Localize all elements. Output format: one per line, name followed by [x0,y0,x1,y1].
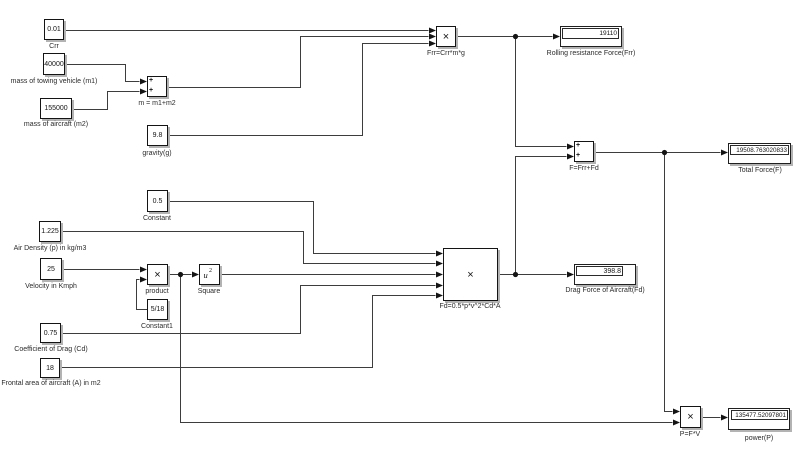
label power(P) [745,435,773,443]
arrowhead into drag display [567,272,574,278]
label Constant1 [141,323,173,331]
arrowhead into Frr input 1 [429,28,436,34]
arrowhead into Frr display [553,34,560,40]
arrowhead into product input 1 [140,267,147,273]
label m = m1+m2 [138,100,175,108]
wire Cd to Fd input 4 [61,286,436,334]
label Square [198,288,221,296]
display value 135477.52097801 [731,410,788,420]
label Coefficient of Drag (Cd) [14,346,87,354]
arrowhead into P input 1 [673,409,680,415]
arrowhead into Fd input 4 [436,283,443,289]
arrowhead into product input 2 [140,277,147,283]
label F=Frr+Fd [569,165,599,173]
label Frr=Crr*m*g [427,50,465,58]
multiply block Frr=Crr*m*g [436,26,456,47]
multiply block product [147,264,168,285]
arrowhead into sum m input 1 [140,79,147,85]
arrowhead into sum m input 2 [140,89,147,95]
arrowhead into sum F input 2 [567,154,574,160]
wire sum F to power display [701,417,721,419]
plus sign input 2 of sum m [149,87,153,94]
constant block Constant1 value 5/18 [147,299,168,320]
wire sum m output to Frr multiply input 2 [167,37,429,88]
arrowhead into Fd input 5 [436,293,443,299]
arrowhead into Frr input 3 [429,41,436,47]
label Rolling resistance Force(Frr) [547,50,636,58]
label mass of aircraft (m2) [24,121,88,129]
wire Crr to Frr multiply input 1 [64,30,429,32]
wire F junction down to P multiply input 1 [665,153,673,412]
display block Rolling resistance Force [560,26,622,47]
display block Total Force [728,143,791,164]
label Frontal area of aircraft (A) in m2 [1,380,100,388]
label Crr [49,43,59,51]
multiply block Fd=0.5*p*v^2*Cd*A [443,248,498,301]
wire m2 constant to sum input 2 [72,92,140,110]
label Total Force(F) [738,167,782,175]
wire frontal area to Fd input 5 [60,296,436,368]
wire sum F output to Total Force display [594,152,721,154]
label product [145,288,168,296]
arrowhead into Fd input 3 [436,272,443,278]
Square block u exponent text [204,271,208,279]
label Velocity in Kmph [25,283,77,291]
sum block m = m1+m2 [147,76,167,97]
display value 398.8 [576,266,623,276]
wire Frr junction down to sum F input 1 [516,37,567,147]
plus sign input 2 of sum F [576,152,580,159]
wire Fd output to drag display [498,274,567,276]
label mass of towing vehicle (m1) [11,78,98,86]
constant block mass of aircraft value 155000 [40,98,72,119]
wire Fd junction up to sum F input 2 [516,157,567,275]
constant block Air Density value 1.225 [39,221,61,242]
constant block Cd value 0.75 [40,323,61,343]
constant block gravity value 9.8 [147,125,168,146]
label gravity(g) [142,150,171,158]
math function block Square [199,264,220,285]
junction node after Fd output [513,272,518,277]
wire Square output to Fd input 3 [220,274,436,276]
arrowhead into Fd input 1 [436,251,443,257]
wire 5/18 constant to product input 2 [137,280,148,310]
wire air density to Fd input 2 [61,232,436,264]
label Fd=0.5*p*v^2*Cd*A [439,303,500,311]
arrowhead into P input 2 [673,420,680,426]
junction node after Frr output [513,34,518,39]
arrowhead into power display [721,415,728,421]
wire m1 constant to sum input 1 [65,65,140,82]
arrowhead into Fd input 2 [436,261,443,267]
label Drag Force of Aircraft(Fd) [565,287,644,295]
wire v junction down to P multiply input 2 [181,275,673,423]
wire product output to Square input [168,274,192,276]
wire gravity to Frr multiply input 3 [168,44,429,136]
constant block Velocity value 25 [40,258,62,280]
constant block mass of towing vehicle value 40000 [43,53,65,75]
constant block frontal area value 18 [40,358,60,378]
display value 19508.763020833 [730,145,789,155]
sum block F=Frr+Fd [574,141,594,162]
arrowhead into Frr input 2 [429,34,436,40]
junction node after product output [178,272,183,277]
arrowhead into sum F input 1 [567,144,574,150]
label Air Density (p) in kg/m3 [14,245,87,253]
constant block Crr value 0.01 [44,19,64,40]
arrowhead into Square input [192,272,199,278]
display block Drag Force [574,264,636,285]
label P=F*V [680,431,700,439]
multiply block P=F*V [680,406,701,428]
label Constant [143,215,171,223]
display value 19110 [562,28,619,39]
wire velocity to product input 1 [62,269,140,271]
constant block Constant value 0.5 [147,190,168,212]
wire Frr multiply output to display [456,36,553,38]
junction node after sum F output [662,150,667,155]
plus sign input 1 of sum F [576,142,580,149]
plus sign input 1 of sum m [149,77,153,84]
arrowhead into Total Force display [721,150,728,156]
wire 0.5 constant to Fd input 1 [168,202,436,254]
display block power [728,408,790,430]
